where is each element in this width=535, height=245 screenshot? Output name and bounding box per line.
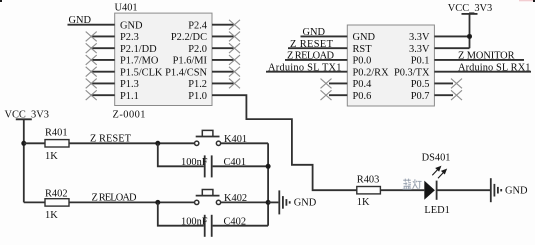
svg-text:GND: GND xyxy=(353,32,376,43)
svg-text:P0.1: P0.1 xyxy=(411,56,430,67)
svg-text:P1.1: P1.1 xyxy=(120,91,139,102)
svg-text:P1.5/CLK: P1.5/CLK xyxy=(120,68,163,79)
svg-text:R402: R402 xyxy=(45,188,68,199)
svg-text:VCC_3V3: VCC_3V3 xyxy=(448,3,492,14)
svg-text:P2.2/DC: P2.2/DC xyxy=(171,32,207,43)
svg-text:LED1: LED1 xyxy=(424,205,449,216)
svg-text:1K: 1K xyxy=(45,210,58,221)
svg-text:C402: C402 xyxy=(224,216,247,227)
svg-text:P0.2/RX: P0.2/RX xyxy=(353,68,390,79)
svg-text:U401: U401 xyxy=(115,3,138,14)
svg-text:DS401: DS401 xyxy=(422,152,451,163)
svg-text:Z MONITOR: Z MONITOR xyxy=(458,51,515,62)
svg-text:P1.2: P1.2 xyxy=(188,79,207,90)
svg-text:GND: GND xyxy=(69,15,92,26)
svg-text:P2.1/DD: P2.1/DD xyxy=(120,44,157,55)
svg-text:Z RELOAD: Z RELOAD xyxy=(287,51,334,62)
svg-text:1K: 1K xyxy=(357,197,370,208)
svg-text:RST: RST xyxy=(353,44,373,55)
svg-text:P1.7/MO: P1.7/MO xyxy=(120,56,159,67)
svg-text:P1.3: P1.3 xyxy=(120,79,139,90)
svg-text:P0.7: P0.7 xyxy=(411,91,430,102)
svg-text:100nF: 100nF xyxy=(181,157,208,168)
svg-text:P1.0: P1.0 xyxy=(188,91,207,102)
svg-text:R403: R403 xyxy=(357,175,380,186)
svg-text:P0.0: P0.0 xyxy=(353,56,372,67)
svg-text:P2.0: P2.0 xyxy=(188,44,207,55)
svg-text:GND: GND xyxy=(120,21,143,32)
svg-text:GND: GND xyxy=(505,186,528,197)
svg-text:C401: C401 xyxy=(224,157,247,168)
svg-text:P1.6/MI: P1.6/MI xyxy=(173,56,208,67)
svg-text:100nF: 100nF xyxy=(181,216,208,227)
svg-text:P0.4: P0.4 xyxy=(353,79,373,90)
svg-text:R401: R401 xyxy=(45,127,68,138)
svg-text:Arduino SL TX1: Arduino SL TX1 xyxy=(268,62,342,73)
svg-text:P2.4: P2.4 xyxy=(188,21,208,32)
svg-text:1K: 1K xyxy=(45,151,58,162)
svg-text:GND: GND xyxy=(303,27,326,38)
svg-text:Z RESET: Z RESET xyxy=(290,39,334,50)
svg-text:P0.5: P0.5 xyxy=(411,79,430,90)
svg-text:Z RESET: Z RESET xyxy=(90,133,132,144)
svg-text:Z-0001: Z-0001 xyxy=(113,110,146,121)
svg-text:P1.4/CSN: P1.4/CSN xyxy=(165,68,207,79)
svg-text:GND: GND xyxy=(294,198,317,209)
svg-text:3.3V: 3.3V xyxy=(409,32,430,43)
svg-text:P0.6: P0.6 xyxy=(353,91,372,102)
svg-text:3.3V: 3.3V xyxy=(409,44,430,55)
svg-text:Arduino SL RX1: Arduino SL RX1 xyxy=(458,62,531,73)
svg-text:Z RELOAD: Z RELOAD xyxy=(92,193,137,204)
svg-text:P2.3: P2.3 xyxy=(120,32,139,43)
svg-text:P0.3/TX: P0.3/TX xyxy=(394,68,430,79)
